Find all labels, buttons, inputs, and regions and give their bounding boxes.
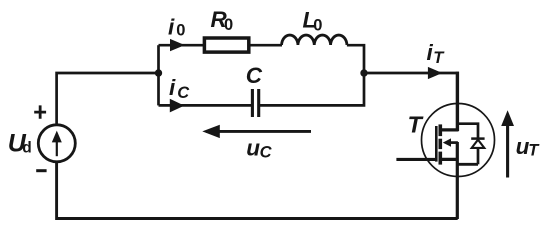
svg-text:T: T bbox=[528, 141, 540, 159]
svg-text:T: T bbox=[433, 49, 445, 67]
svg-text:T: T bbox=[408, 112, 424, 138]
svg-text:i: i bbox=[168, 14, 175, 39]
svg-text:C: C bbox=[260, 144, 273, 162]
svg-text:i: i bbox=[169, 75, 176, 100]
svg-text:d: d bbox=[22, 140, 31, 157]
svg-text:C: C bbox=[246, 63, 263, 88]
svg-text:0: 0 bbox=[224, 16, 233, 34]
svg-text:0: 0 bbox=[176, 21, 185, 39]
svg-text:C: C bbox=[177, 84, 190, 102]
svg-text:0: 0 bbox=[313, 16, 322, 34]
svg-text:u: u bbox=[246, 135, 260, 160]
